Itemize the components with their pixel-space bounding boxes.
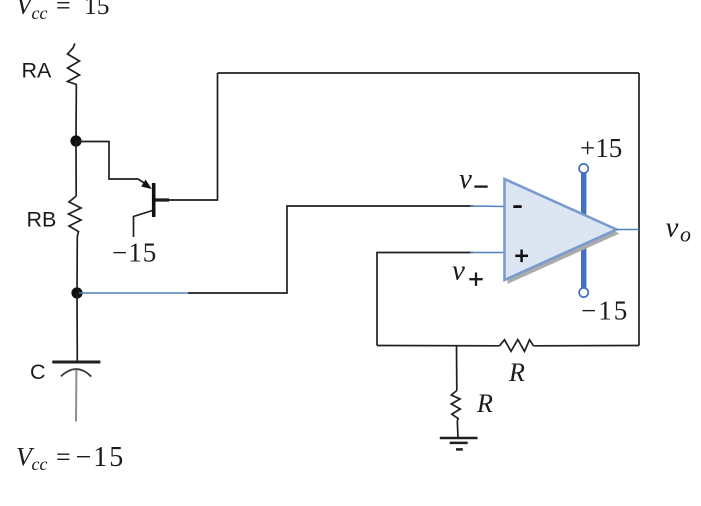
wire node A to Q1 emitter (76, 142, 145, 184)
op-amp U1 plus sign (515, 250, 528, 263)
resistor RA (68, 44, 80, 92)
svg-text:−15: −15 (76, 442, 126, 473)
op-amp U1 output stub (617, 229, 640, 231)
svg-text:+15: +15 (580, 133, 622, 163)
op-amp U1 body (505, 179, 617, 280)
resistor R feedback (500, 340, 534, 352)
wire feedback bottom right (534, 345, 640, 347)
svg-text:cc: cc (32, 454, 48, 474)
label vo (666, 211, 692, 246)
wire node A to RB (75, 141, 77, 196)
svg-text:RB: RB (27, 208, 57, 232)
op-amp U1 power bar (581, 169, 586, 293)
op-amp U1 minus sign (513, 205, 521, 208)
label Vcc = -15 (16, 442, 125, 474)
svg-text:C: C (30, 360, 46, 384)
op-amp U1 inverting input stub (470, 205, 505, 208)
wire divider junction down (456, 346, 458, 391)
op-amp U1 non-inverting input stub (470, 252, 505, 254)
wire feedback bottom left (377, 345, 500, 347)
wire RB to node B (76, 237, 78, 294)
transistor Q1 base bar (152, 183, 156, 217)
wire v+ vertical from divider (377, 253, 473, 346)
label v+ (452, 255, 483, 287)
label Vcc = 15 (16, 0, 110, 23)
capacitor C curved plate (61, 369, 91, 377)
svg-text:cc: cc (32, 3, 48, 23)
capacitor C lower lead (75, 370, 77, 422)
label v- (459, 163, 488, 195)
resistor RB (69, 196, 82, 237)
node A (70, 135, 81, 146)
svg-text:15: 15 (84, 0, 110, 20)
wire Q1 base to top rail (155, 73, 218, 200)
transistor Q1 collector diagonal (134, 211, 153, 238)
ground (440, 438, 478, 449)
wire node B blue segment (79, 292, 188, 294)
wire node B to v- input (188, 206, 473, 293)
op-amp U1 positive supply pin (579, 164, 588, 173)
wire top rail (218, 72, 640, 74)
wire RA to node A (75, 91, 77, 141)
svg-text:v: v (459, 163, 472, 195)
svg-text:R: R (508, 358, 525, 387)
svg-text:=: = (56, 0, 71, 20)
wire node B to capacitor (76, 293, 78, 361)
op-amp U1 negative supply pin (579, 288, 588, 297)
svg-text:o: o (680, 222, 691, 247)
node B (71, 287, 82, 298)
svg-text:R: R (476, 389, 493, 418)
svg-text:=: = (56, 443, 71, 472)
wire right rail from top to feedback (638, 73, 640, 346)
capacitor C top plate (52, 361, 100, 364)
svg-text:v: v (666, 211, 679, 243)
svg-text:v: v (452, 255, 465, 287)
wire R divider to ground (456, 421, 459, 438)
resistor R divider (451, 391, 460, 421)
op-amp U1 shadow (508, 183, 620, 284)
svg-text:−15: −15 (581, 296, 629, 326)
svg-text:−15: −15 (112, 238, 157, 268)
transistor Q1 emitter arrowhead (141, 180, 152, 189)
svg-text:RA: RA (22, 59, 53, 83)
